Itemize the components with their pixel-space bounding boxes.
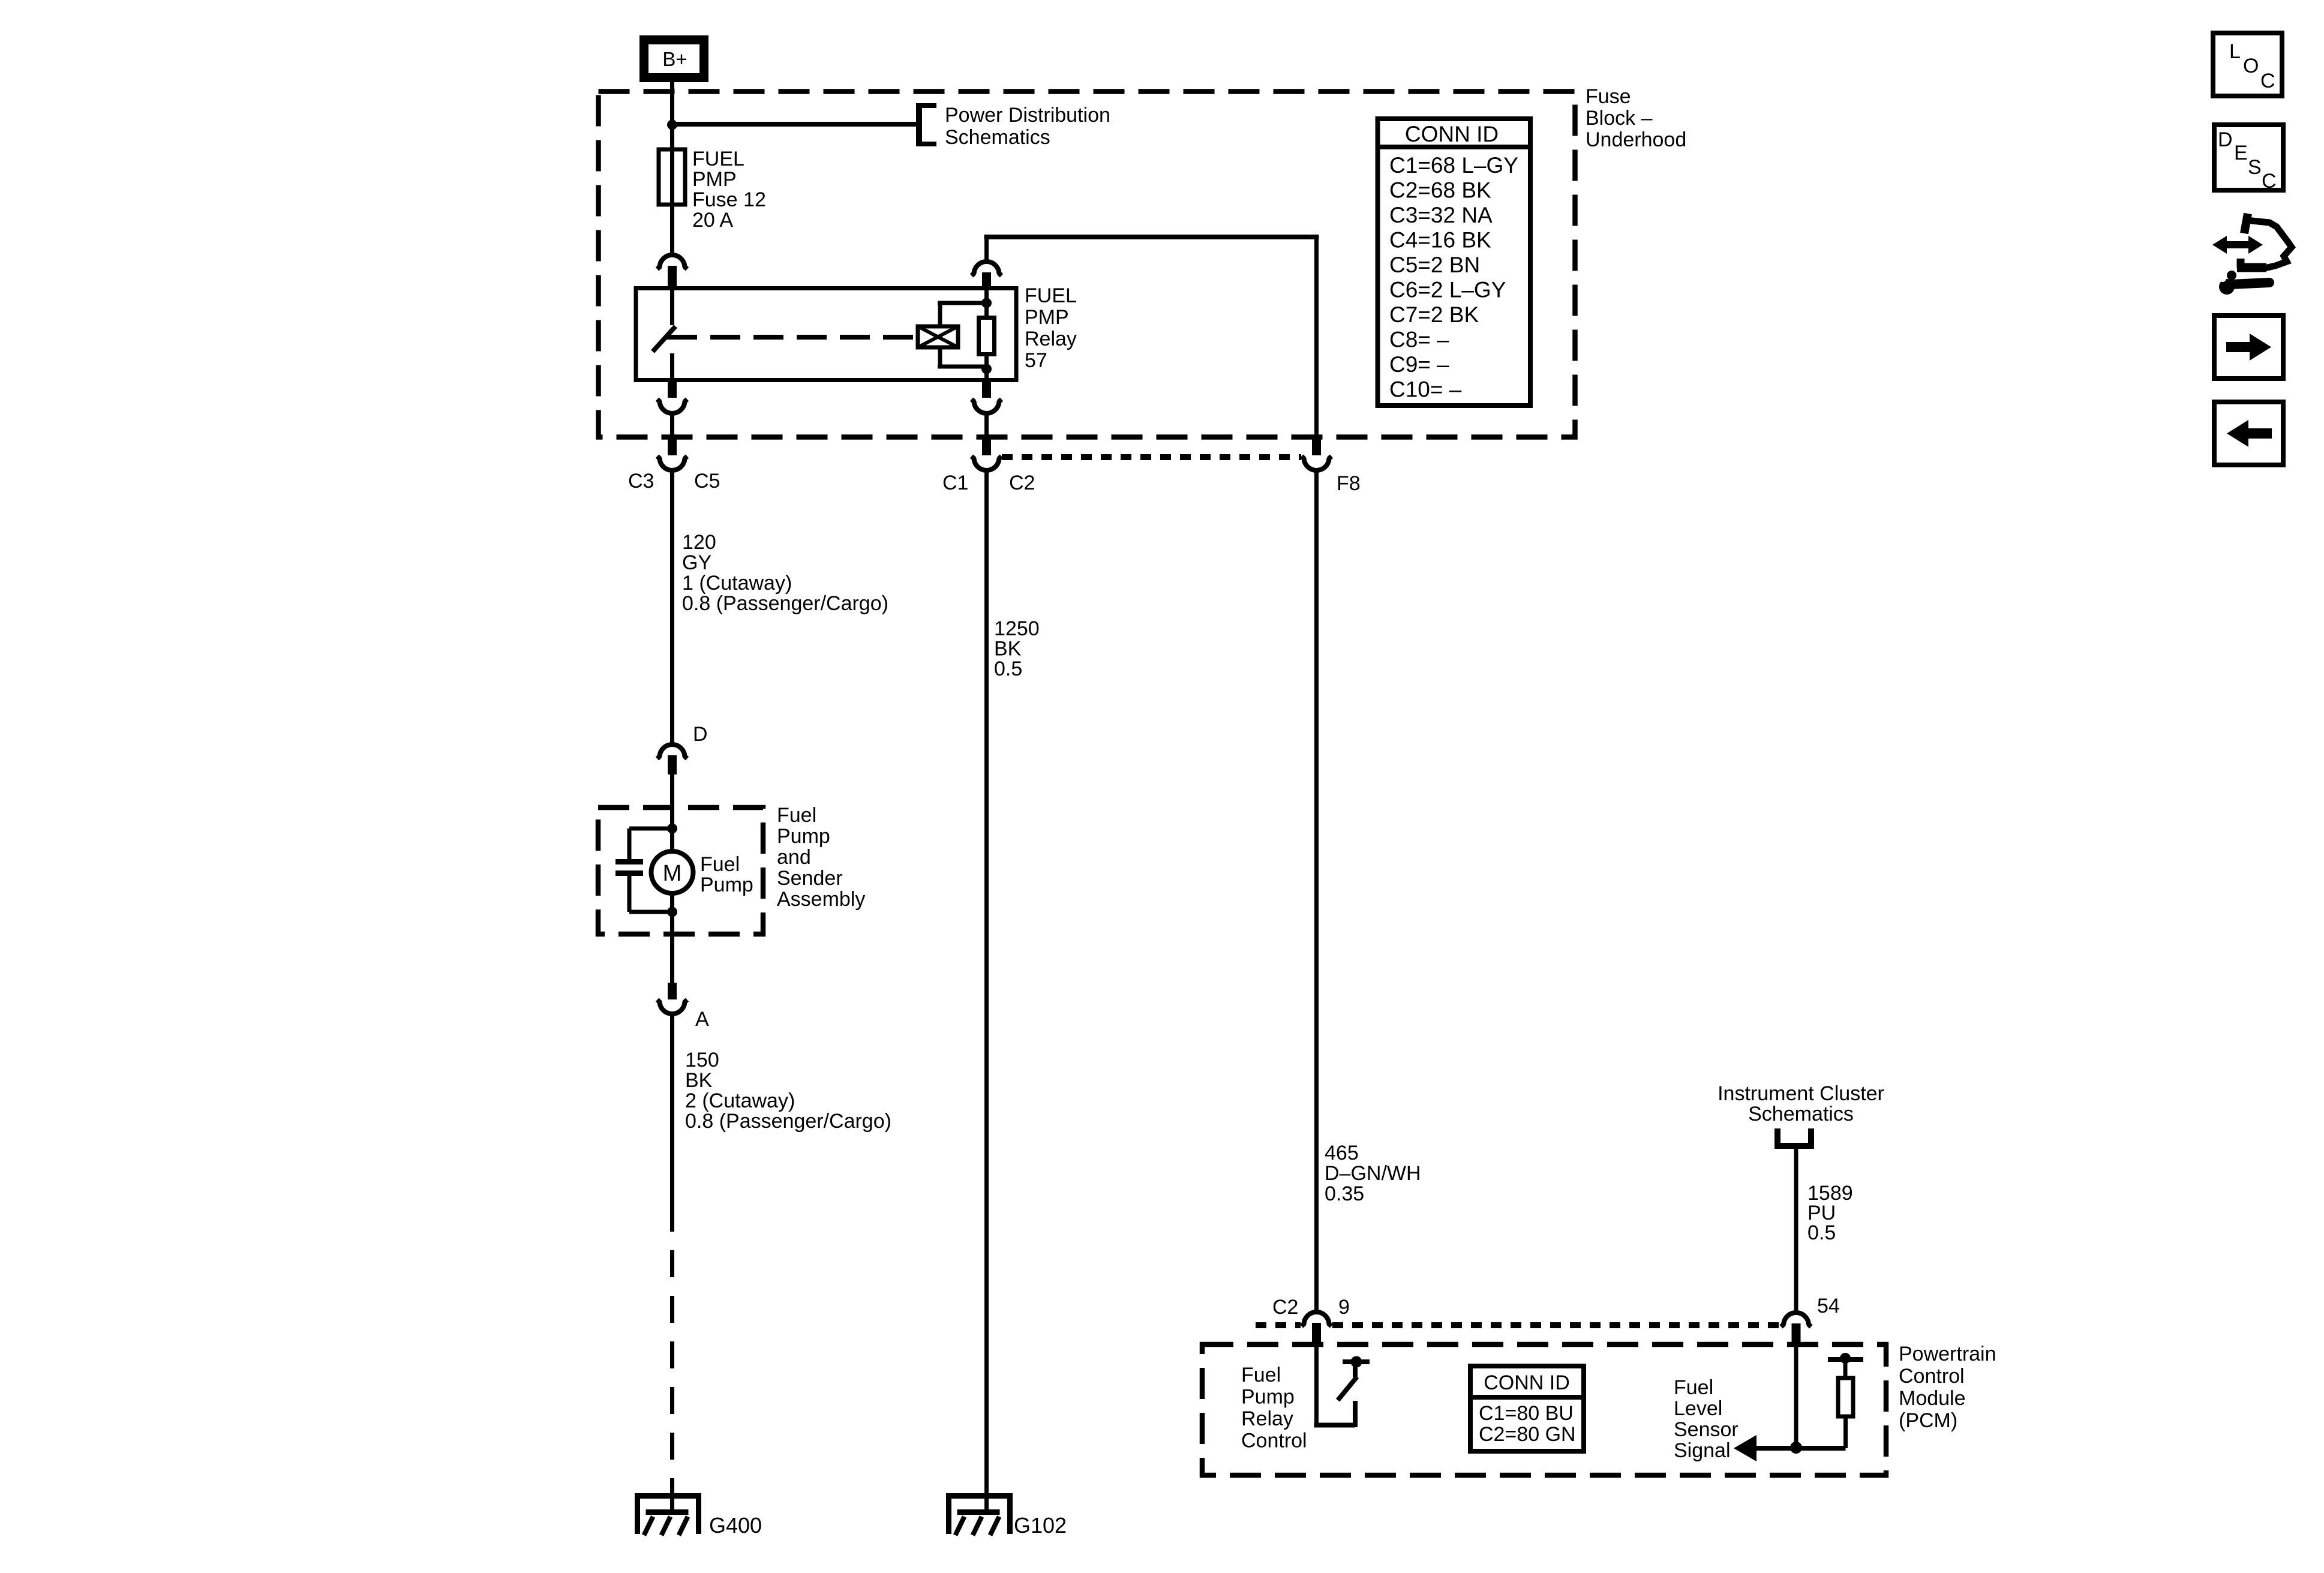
svg-text:CONN ID: CONN ID	[1405, 122, 1499, 146]
svg-text:C10= –: C10= –	[1389, 377, 1462, 402]
label G400	[709, 1513, 762, 1538]
relay coil parallel bracket wiring	[938, 303, 987, 367]
svg-text:(PCM): (PCM)	[1899, 1409, 1957, 1432]
connector face dotted line C2/9 to 54	[1332, 1322, 1780, 1328]
fuse FUEL PMP Fuse 12 20 A (symbol)	[659, 149, 685, 205]
table CONN ID (fuse block)	[1378, 119, 1531, 406]
svg-text:54: 54	[1817, 1295, 1840, 1317]
connector pin 54 at PCM (cup and pin)	[1781, 1313, 1811, 1346]
relay resistor (parallel with coil)	[979, 318, 995, 355]
wire 54 pin down to junction	[1794, 1346, 1798, 1448]
svg-text:Schematics: Schematics	[1748, 1103, 1854, 1125]
svg-text:G400: G400	[709, 1513, 762, 1538]
node relay coil top junction dot	[981, 298, 992, 308]
connector relay pin 1 (cup and pin)	[657, 255, 687, 289]
label 9 (PCM pin)	[1338, 1296, 1350, 1319]
label wire 465 D-GN/WH 0.35	[1325, 1142, 1421, 1205]
wire junction down to fuse	[670, 125, 674, 151]
svg-text:Relay: Relay	[1025, 328, 1077, 350]
svg-text:Fuse: Fuse	[1586, 85, 1631, 108]
svg-text:2 (Cutaway): 2 (Cutaway)	[685, 1089, 795, 1112]
svg-text:Power Distribution: Power Distribution	[945, 104, 1110, 127]
svg-text:GY: GY	[682, 551, 711, 574]
svg-text:Relay: Relay	[1241, 1407, 1293, 1430]
label Fuel Pump and Sender Assembly	[777, 804, 865, 911]
label C5	[694, 470, 720, 493]
connector relay pin 5 bottom-right (pin and cup)	[972, 378, 1002, 413]
svg-text:FUEL: FUEL	[1025, 284, 1077, 307]
svg-text:Level: Level	[1674, 1397, 1722, 1420]
node fuel pump bottom junction dot	[667, 907, 677, 917]
label 54 (PCM pin)	[1817, 1295, 1840, 1317]
svg-text:Signal: Signal	[1674, 1439, 1731, 1462]
wire D connector into fuel pump assembly	[670, 775, 674, 828]
svg-text:O: O	[2243, 55, 2259, 77]
wire 120 GY from C5 down to D connector	[670, 471, 674, 743]
icon button back arrow	[2214, 402, 2283, 465]
svg-text:1 (Cutaway): 1 (Cutaway)	[682, 572, 792, 595]
relay switch contact (movable blade, open)	[653, 290, 675, 379]
table CONN ID (PCM)	[1470, 1366, 1584, 1451]
svg-text:BK: BK	[994, 638, 1022, 661]
svg-text:D: D	[2218, 128, 2233, 151]
svg-text:150: 150	[685, 1049, 719, 1071]
wire 150 BK from A connector (solid then dashed) to G400	[670, 1014, 674, 1512]
ground G400 symbol	[635, 1493, 701, 1535]
svg-text:C2=68 BK: C2=68 BK	[1389, 178, 1491, 203]
label wire 1589 PU 0.5	[1807, 1182, 1853, 1244]
label D	[693, 723, 708, 746]
svg-text:Sensor: Sensor	[1674, 1418, 1739, 1441]
svg-text:0.8 (Passenger/Cargo): 0.8 (Passenger/Cargo)	[685, 1110, 891, 1133]
svg-text:20 A: 20 A	[692, 209, 733, 232]
svg-text:C1: C1	[942, 472, 968, 494]
wire 1250 BK from C2 down to G102	[984, 471, 989, 1512]
connector D (cup and pin)	[657, 745, 687, 775]
svg-text:9: 9	[1338, 1296, 1350, 1319]
connector C1/C2 at fuse block boundary (pin and cup)	[972, 436, 1002, 470]
svg-text:Fuse 12: Fuse 12	[692, 188, 766, 211]
wire B+ down to junction	[670, 81, 674, 125]
svg-text:C4=16 BK: C4=16 BK	[1389, 228, 1491, 253]
connector relay pin 3 bottom-left (pin and cup)	[657, 378, 687, 413]
svg-text:Fuel: Fuel	[1674, 1376, 1713, 1399]
label Fuel Level Sensor Signal	[1674, 1376, 1739, 1462]
label Powertrain Control Module (PCM)	[1899, 1343, 1996, 1432]
fuse block - underhood dashed boundary box	[599, 92, 1575, 437]
relay coil (box with X)	[918, 326, 958, 347]
wire 1589 PU from instrument cluster to 54 connector	[1794, 1149, 1798, 1311]
svg-text:F8: F8	[1337, 472, 1361, 495]
svg-text:Underhood: Underhood	[1586, 128, 1686, 151]
svg-text:0.35: 0.35	[1325, 1182, 1364, 1205]
svg-text:Fuel: Fuel	[700, 853, 740, 876]
svg-text:C7=2 BK: C7=2 BK	[1389, 302, 1479, 327]
svg-text:D–GN/WH: D–GN/WH	[1325, 1162, 1421, 1185]
motor M fuel pump (circle symbol)	[651, 828, 693, 912]
label wire 120 GY 1 (Cutaway) 0.8 (Passenger/Cargo)	[682, 531, 888, 615]
relay coil control dashed line	[667, 335, 918, 340]
svg-text:120: 120	[682, 531, 716, 554]
icon button forward arrow	[2214, 316, 2283, 379]
icon vehicle with wrench (repair navigation)	[2211, 214, 2292, 295]
svg-text:1250: 1250	[994, 617, 1040, 640]
label Fuse Block - Underhood	[1586, 85, 1686, 151]
relay internal wire resistor to bottom dot	[984, 354, 989, 379]
svg-text:0.8 (Passenger/Cargo): 0.8 (Passenger/Cargo)	[682, 592, 888, 615]
off-page reference bracket (Power Distribution Schematics)	[917, 103, 936, 146]
svg-text:and: and	[777, 846, 811, 869]
svg-text:C2: C2	[1009, 472, 1035, 494]
svg-text:C: C	[2260, 70, 2275, 92]
wire 465 D-GN/WH from F8 down to C2/9 connector	[1314, 471, 1319, 1311]
icon button LOC (hyperlink box)	[2213, 33, 2282, 96]
svg-text:C5: C5	[694, 470, 720, 493]
svg-text:S: S	[2248, 156, 2262, 179]
svg-text:C1=80 BU: C1=80 BU	[1479, 1402, 1574, 1425]
capacitor (fuel pump noise suppressor)	[615, 828, 672, 912]
svg-text:BK: BK	[685, 1069, 713, 1092]
wire relay pin2 up and across to F8	[984, 237, 1319, 436]
svg-text:C8= –: C8= –	[1389, 328, 1449, 352]
svg-text:C6=2 L–GY: C6=2 L–GY	[1389, 278, 1506, 302]
wire relay pin5 to fuse block boundary	[984, 413, 989, 437]
svg-text:C5=2 BN: C5=2 BN	[1389, 253, 1480, 277]
off-page reference bracket (Instrument Cluster)	[1775, 1128, 1813, 1149]
svg-text:C3: C3	[628, 470, 654, 493]
table CONN ID PCM rows	[1479, 1402, 1576, 1446]
svg-text:C1=68 L–GY: C1=68 L–GY	[1389, 153, 1518, 178]
svg-text:CONN ID: CONN ID	[1484, 1371, 1570, 1394]
svg-text:0.5: 0.5	[994, 658, 1022, 680]
resistor fuel level sense (PCM)	[1838, 1378, 1853, 1416]
connector face dotted line at PCM (left of C2/9)	[1256, 1322, 1301, 1328]
power node B+ (battery positive) box	[644, 40, 704, 78]
label FUEL PMP Fuse 12 20 A	[692, 148, 766, 232]
label Fuel Pump (motor)	[700, 853, 753, 896]
connector A (pin and cup)	[657, 983, 687, 1014]
icon button DESC (description box)	[2214, 125, 2283, 193]
connector C3/C5 at fuse block boundary (pin and cup)	[657, 436, 687, 470]
node relay coil bottom junction dot	[981, 364, 992, 374]
node junction dot on 54 wire at signal line	[1790, 1442, 1802, 1454]
svg-text:Module: Module	[1899, 1387, 1966, 1410]
svg-text:Pump: Pump	[700, 873, 753, 896]
svg-text:Assembly: Assembly	[777, 888, 865, 911]
svg-text:465: 465	[1325, 1142, 1359, 1164]
relay internal wire top dot to resistor	[984, 290, 989, 318]
label wire 150 BK 2 (Cutaway) 0.8 (Passenger/Cargo)	[685, 1049, 891, 1133]
label FUEL PMP Relay 57	[1025, 284, 1077, 372]
svg-text:M: M	[663, 861, 682, 886]
label F8	[1337, 472, 1361, 495]
label C3	[628, 470, 654, 493]
table CONN ID rows C1..C10	[1389, 153, 1518, 402]
connector C2 pin 9 at PCM (cup and pin)	[1302, 1312, 1332, 1346]
fuel pump and sender assembly dashed box	[598, 807, 763, 934]
svg-text:B+: B+	[662, 48, 687, 70]
wire junction to Power Distribution off-page reference	[672, 122, 918, 127]
svg-text:57: 57	[1025, 349, 1047, 372]
svg-text:C2: C2	[1272, 1296, 1298, 1319]
node junction dot at B+ feed	[667, 120, 677, 130]
svg-text:Sender: Sender	[777, 867, 843, 890]
svg-text:Pump: Pump	[1241, 1386, 1295, 1409]
PCM internal sense resistor top stub with dot	[1828, 1353, 1863, 1377]
label Instrument Cluster Schematics	[1718, 1082, 1884, 1125]
PCM fuel pump relay driver switch (open, with contact dot)	[1314, 1346, 1370, 1427]
connector F8 at fuse block boundary (pin and cup)	[1302, 436, 1332, 470]
svg-text:C2=80 GN: C2=80 GN	[1479, 1423, 1576, 1446]
svg-text:A: A	[695, 1008, 709, 1031]
svg-text:PMP: PMP	[692, 168, 737, 191]
svg-text:Fuel: Fuel	[777, 804, 816, 827]
svg-text:Control: Control	[1241, 1430, 1307, 1452]
svg-text:Pump: Pump	[777, 825, 830, 848]
label A	[695, 1008, 709, 1031]
svg-text:FUEL: FUEL	[692, 148, 744, 170]
svg-text:E: E	[2234, 142, 2248, 164]
connector face dotted line C1/C2 to F8	[1002, 454, 1301, 460]
svg-text:D: D	[693, 723, 708, 746]
label Power Distribution Schematics	[945, 104, 1110, 149]
svg-text:Instrument Cluster: Instrument Cluster	[1718, 1082, 1884, 1105]
wire resistor down and left to signal arrow	[1754, 1416, 1846, 1448]
svg-text:C9= –: C9= –	[1389, 352, 1449, 377]
label C1	[942, 472, 968, 494]
svg-text:L: L	[2229, 40, 2241, 63]
powertrain control module dashed boundary box	[1202, 1344, 1886, 1475]
label C2	[1009, 472, 1035, 494]
arrow head fuel level sensor signal (points left)	[1734, 1435, 1756, 1461]
svg-text:C3=32 NA: C3=32 NA	[1389, 203, 1493, 227]
label C2 (PCM connector)	[1272, 1296, 1298, 1319]
relay FUEL PMP Relay 57 outline box	[636, 289, 1016, 380]
label G102	[1014, 1513, 1067, 1538]
svg-text:Control: Control	[1899, 1365, 1965, 1388]
wire fuel pump down to A connector	[670, 912, 674, 983]
svg-text:G102: G102	[1014, 1513, 1067, 1538]
node fuel pump top junction dot	[667, 824, 677, 834]
svg-text:Block –: Block –	[1586, 107, 1653, 130]
svg-text:Schematics: Schematics	[945, 126, 1050, 149]
svg-text:0.5: 0.5	[1807, 1221, 1836, 1244]
ground G102 symbol	[947, 1493, 1013, 1535]
wire fuse to relay connector	[670, 205, 674, 254]
label Fuel Pump Relay Control	[1241, 1364, 1307, 1452]
connector relay pin 2 top (cup and pin)	[972, 262, 1002, 289]
svg-text:C: C	[2262, 170, 2277, 193]
label wire 1250 BK 0.5	[994, 617, 1040, 680]
svg-text:PMP: PMP	[1025, 306, 1069, 329]
svg-text:Powertrain: Powertrain	[1899, 1343, 1996, 1365]
svg-text:Fuel: Fuel	[1241, 1364, 1281, 1386]
wire relay pin3 to fuse block boundary	[670, 413, 674, 437]
